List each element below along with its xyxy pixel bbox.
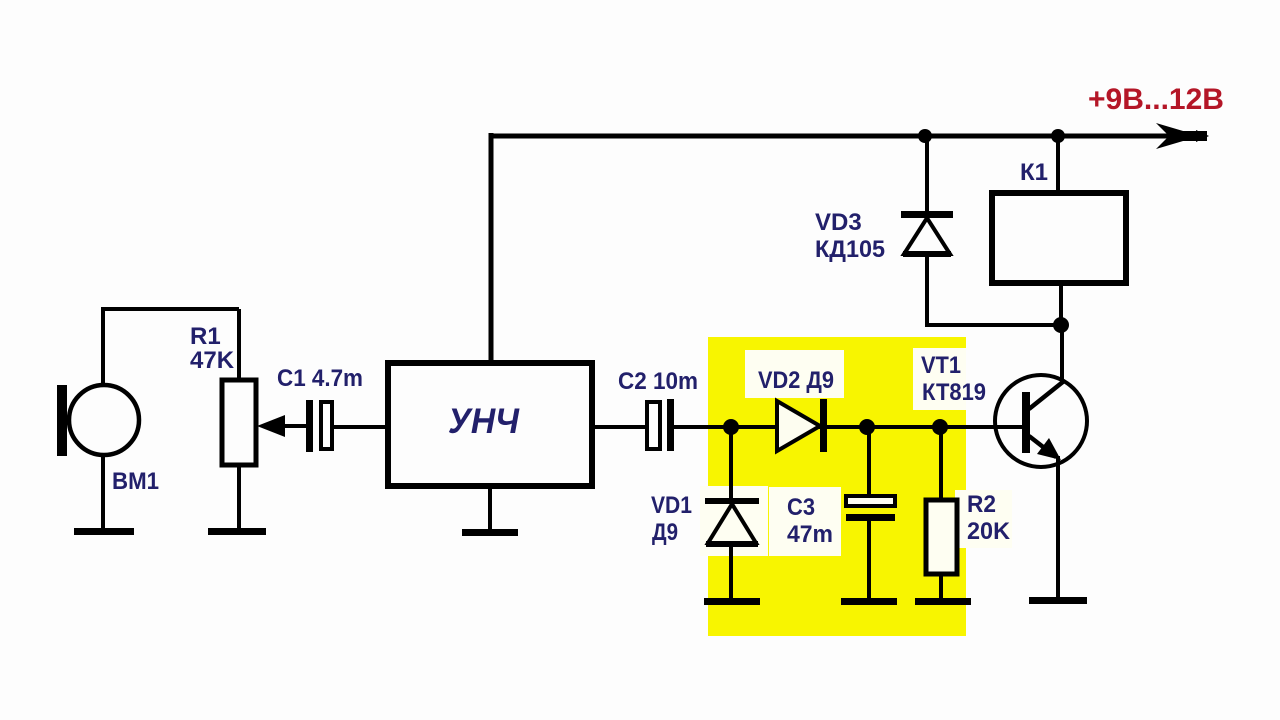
ground at VD1 — [704, 598, 760, 605]
transistor VT1 — [995, 375, 1087, 467]
wire: УНЧ right to C2 — [592, 425, 648, 429]
resistor R2 — [939, 427, 943, 500]
ground at R2 — [915, 598, 971, 605]
svg-text:VD2 Д9: VD2 Д9 — [758, 367, 834, 394]
node: VD2/C3 junction — [859, 419, 875, 435]
svg-text:47K: 47K — [190, 347, 235, 374]
diode VD3 — [925, 136, 929, 213]
wire: power rail — [489, 134, 1196, 139]
node: rail junction at VD3 — [918, 129, 932, 143]
wire: mic bottom lead — [101, 454, 105, 530]
wire: C2 to node — [674, 425, 1025, 429]
ground at C3 — [841, 598, 897, 605]
svg-text:КД105: КД105 — [815, 236, 885, 263]
svg-text:47m: 47m — [787, 521, 833, 548]
svg-text:R2: R2 — [967, 491, 996, 518]
wire: R1 bottom lead — [237, 465, 241, 530]
ground at УНЧ — [462, 529, 518, 536]
wire: rail down to УНЧ top — [489, 133, 494, 364]
wire: mic top up — [101, 307, 105, 386]
node: rail junction at K1 — [1051, 129, 1065, 143]
svg-text:УНЧ: УНЧ — [448, 402, 520, 441]
svg-text:VT1: VT1 — [921, 352, 961, 379]
svg-text:20K: 20K — [967, 518, 1011, 545]
svg-text:C1 4.7m: C1 4.7m — [277, 365, 363, 392]
svg-text:C2 10m: C2 10m — [618, 368, 698, 395]
wire: VD3 bottom to collector node — [925, 323, 1061, 327]
relay K1 — [1056, 136, 1060, 195]
amplifier box УНЧ — [388, 363, 592, 486]
diode VD2 — [777, 401, 820, 451]
ground at BM1 — [74, 528, 134, 535]
diode VD1 — [729, 427, 733, 500]
svg-text:+9В...12В: +9В...12В — [1088, 83, 1224, 116]
yellow highlight region — [708, 337, 966, 636]
node: collector/K1/VD3 junction — [1053, 317, 1069, 333]
node: R2/base junction — [932, 419, 948, 435]
wire: R1 top lead — [237, 309, 241, 381]
ground at R1 — [208, 528, 266, 535]
svg-text:VD3: VD3 — [815, 209, 862, 236]
capacitor C1 — [306, 400, 313, 452]
white patch behind R2 label — [955, 490, 1012, 548]
svg-text:КТ819: КТ819 — [922, 379, 986, 406]
wire: C1 to УНЧ — [332, 425, 389, 429]
ground at VT1 emitter — [1029, 597, 1087, 604]
svg-text:BM1: BM1 — [112, 468, 159, 495]
white patch behind VD1 symbol — [700, 486, 768, 556]
svg-text:C3: C3 — [787, 494, 815, 521]
white patch behind VT1 label — [913, 348, 966, 410]
capacitor C3 — [867, 427, 871, 497]
svg-text:К1: К1 — [1020, 159, 1048, 186]
white patch behind VD2 label — [745, 350, 844, 398]
potentiometer R1 — [222, 380, 256, 465]
capacitor C2 — [647, 402, 660, 449]
svg-text:Д9: Д9 — [652, 519, 678, 546]
wire: mic to R1 top — [101, 307, 239, 311]
wire: collector up — [1060, 325, 1064, 384]
wire: emitter down — [1056, 456, 1060, 600]
wiper arrow into R1 — [282, 424, 308, 428]
svg-text:R1: R1 — [190, 323, 221, 350]
microphone BM1 — [57, 385, 67, 456]
white patch behind C3 label — [769, 487, 841, 556]
node: C2/VD1/VD2 junction — [723, 419, 739, 435]
power arrow — [1156, 123, 1200, 149]
wire: УНЧ bottom lead — [488, 486, 492, 531]
svg-text:VD1: VD1 — [651, 492, 692, 519]
